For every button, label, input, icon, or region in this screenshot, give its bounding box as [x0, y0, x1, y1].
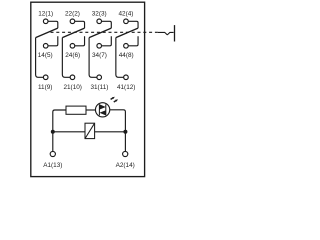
svg-text:32(3): 32(3) — [92, 11, 107, 18]
LED diode top (anode left, points right) — [99, 104, 105, 109]
pole 1 contact 12: wire — [48, 21, 58, 28]
pole 1 contact 14: wire — [48, 36, 58, 46]
pole 3 terminal 32(3) — [97, 19, 102, 24]
LED cathode bar left — [98, 104, 100, 115]
pole 2 blade — [62, 28, 84, 37]
svg-text:22(2): 22(2) — [65, 11, 80, 18]
svg-text:12(1): 12(1) — [38, 11, 53, 18]
junction node right — [123, 130, 127, 134]
LED cathode bar right — [105, 104, 107, 115]
svg-text:24(6): 24(6) — [65, 52, 80, 59]
schematic outline frame — [31, 2, 145, 176]
pole 2 terminal 24(6) — [70, 44, 75, 49]
pole 4 terminal 44(8) — [124, 44, 129, 49]
pole 4 common wire to 41 — [116, 38, 124, 78]
resistor R (indicator series) — [66, 106, 86, 114]
svg-text:14(5): 14(5) — [38, 52, 53, 59]
LED emission arrow 1 — [111, 97, 115, 100]
pole 2 contact 22: wire — [75, 21, 85, 28]
pole 3 terminal 31(11) — [97, 75, 102, 80]
pole 2 terminal 21(10) — [70, 75, 75, 80]
coil rail right segment — [95, 131, 126, 133]
mechanical linkage (dashed) — [51, 31, 159, 33]
pole 3 common wire to 31 — [89, 38, 97, 78]
svg-text:A2(14): A2(14) — [116, 162, 135, 169]
pole 3 terminal 34(7) — [97, 44, 102, 49]
svg-text:42(4): 42(4) — [118, 11, 133, 18]
pole 1 terminal 12(1) — [43, 19, 48, 24]
pole 2 terminal 22(2) — [70, 19, 75, 24]
pole 1 blade — [36, 28, 58, 37]
wire LED to right rail down to A2 — [110, 110, 126, 151]
terminal A2(14) — [123, 151, 128, 156]
pole 4 contact 42: wire — [128, 21, 138, 28]
pole 1 terminal 14(5) — [43, 44, 48, 49]
pole 3 contact 34: wire — [102, 36, 112, 46]
coil rail left segment — [53, 131, 85, 133]
pole 4 terminal 42(4) — [124, 19, 129, 24]
pole 3 blade — [89, 28, 111, 37]
pole 4 terminal 41(12) — [124, 75, 129, 80]
svg-text:A1(13): A1(13) — [43, 162, 62, 169]
junction node left — [51, 130, 55, 134]
svg-text:21(10): 21(10) — [63, 84, 81, 91]
pole 1 terminal 11(9) — [43, 75, 48, 80]
pole 1 common wire to 11 — [36, 38, 44, 78]
LED indicator circle — [95, 103, 109, 117]
test button actuator — [158, 32, 174, 34]
LED emission arrow 2 — [114, 99, 118, 102]
svg-text:31(11): 31(11) — [90, 84, 108, 91]
coil K (rectangle with diagonal) — [85, 123, 95, 138]
test button bar — [174, 25, 176, 41]
pole 3 contact 32: wire — [102, 21, 112, 28]
wire: left rail down from top rail to A1 — [53, 110, 66, 151]
pole 4 contact 44: wire — [128, 36, 138, 46]
LED diode bottom (anode right, points left) — [99, 110, 105, 115]
pole 2 common wire to 21 — [62, 38, 70, 78]
svg-text:41(12): 41(12) — [117, 84, 135, 91]
pole 4 blade — [116, 28, 138, 37]
svg-text:11(9): 11(9) — [38, 84, 52, 91]
svg-text:34(7): 34(7) — [92, 52, 107, 59]
terminal A1(13) — [50, 151, 55, 156]
pole 2 contact 24: wire — [75, 36, 85, 46]
svg-text:44(8): 44(8) — [119, 52, 134, 59]
wire resistor to LED — [86, 109, 96, 111]
